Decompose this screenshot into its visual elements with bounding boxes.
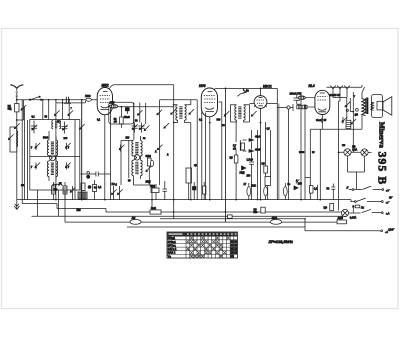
tuning cap CV2 xyxy=(62,122,68,134)
wire x353.3 xyxy=(352,92,354,153)
svg-text:УЗВ: УЗВ xyxy=(297,94,302,96)
svg-text:300: 300 xyxy=(217,120,222,122)
svg-text:ВУТиц: ВУТиц xyxy=(168,244,176,247)
wire antenna down xyxy=(16,100,18,200)
svg-text:у: у xyxy=(68,147,70,149)
svg-text:ПИФ: ПИФ xyxy=(85,95,91,98)
resistor R7 xyxy=(148,158,152,172)
svg-text:0,1: 0,1 xyxy=(32,117,36,119)
svg-text:100пФ: 100пФ xyxy=(290,92,297,95)
node i2 xyxy=(62,102,64,104)
wire link2 xyxy=(17,119,24,121)
wire x305 xyxy=(305,104,310,199)
svg-text:5000: 5000 xyxy=(43,138,49,140)
trimmer b2 xyxy=(65,143,71,150)
svg-text:RL4: RL4 xyxy=(309,84,315,88)
coil connect wires xyxy=(49,131,56,181)
trimmer k11 xyxy=(341,117,347,124)
switch k6 xyxy=(137,110,143,116)
resistor R1 oval xyxy=(85,95,91,101)
transformer core xyxy=(366,98,368,115)
wire V1 bottom xyxy=(104,115,106,200)
svg-text:д: д xyxy=(167,154,169,156)
svg-text:НВС1: НВС1 xyxy=(263,84,272,88)
capacitor c16 dark xyxy=(193,182,196,200)
svg-text:0,07А: 0,07А xyxy=(350,217,357,220)
osc coil leads xyxy=(121,136,141,185)
svg-text:250: 250 xyxy=(254,212,259,214)
iron core coil L4 xyxy=(52,121,61,129)
node if1b xyxy=(173,122,175,124)
svg-text:4МФ: 4МФ xyxy=(272,217,277,220)
svg-text:7: 7 xyxy=(71,108,73,110)
svg-text:50: 50 xyxy=(327,188,330,191)
svg-text:25: 25 xyxy=(312,152,315,154)
wire V2 bottom xyxy=(209,117,211,200)
svg-text:ЦАВ 2: ЦАВ 2 xyxy=(168,252,176,255)
tube V4 xyxy=(315,90,330,114)
antenna xyxy=(10,85,23,100)
svg-text:-А: -А xyxy=(385,230,388,234)
svg-text:0,1: 0,1 xyxy=(98,186,102,189)
coil L10 bottom xyxy=(53,184,63,191)
switch S1 xyxy=(29,96,41,101)
resistor r16 xyxy=(283,183,290,200)
wire plate V1 xyxy=(113,106,175,108)
svg-text:ЦФ: ЦФ xyxy=(324,206,328,209)
output transformer primary xyxy=(362,93,366,130)
IF1 transformer coils xyxy=(174,105,191,123)
wire grid cap V1 xyxy=(110,85,174,89)
svg-text:НВД: НВД xyxy=(240,172,245,175)
speaker magnet and cone xyxy=(377,97,392,116)
svg-text:Пк: Пк xyxy=(361,206,365,209)
resistor nvd xyxy=(150,185,159,193)
box divider xyxy=(30,156,80,158)
trimmer b4 xyxy=(65,163,71,170)
trimmer k10 xyxy=(163,123,169,129)
wire v x27.5 xyxy=(27,120,29,200)
svg-text:+Г: +Г xyxy=(386,201,390,205)
IF2 arrows xyxy=(224,111,257,117)
node a1 xyxy=(16,99,18,101)
resistor AM2 oval xyxy=(270,217,281,224)
switch row1 xyxy=(346,186,393,200)
svg-text:кнд: кнд xyxy=(8,108,12,111)
svg-text:50: 50 xyxy=(45,117,48,119)
wire V3 top xyxy=(260,88,262,95)
tone cap on Y3 xyxy=(228,215,233,218)
resistor r14 xyxy=(244,183,251,200)
resistor Pk xyxy=(352,205,365,213)
resistor R11 xyxy=(309,186,318,194)
wire x225.5 tall xyxy=(225,88,227,222)
connector circle c2 xyxy=(346,109,348,111)
node a2 xyxy=(16,119,18,121)
svg-text:50пФ: 50пФ xyxy=(124,116,130,119)
svg-text:ЦЗ: ЦЗ xyxy=(262,163,266,166)
tuning gang CV3 xyxy=(132,123,138,133)
capacitor C9 xyxy=(290,92,302,104)
resistor R3 xyxy=(81,183,97,191)
band filter box xyxy=(30,120,80,191)
IF1 arrows xyxy=(170,109,194,115)
svg-text:ЦЗ: ЦЗ xyxy=(230,156,234,159)
trimmer k5 xyxy=(144,125,150,131)
trimmer pair small xyxy=(111,183,123,200)
pilot lamp xyxy=(341,209,356,219)
diode D2 xyxy=(294,179,302,189)
svg-text:НЗ д: НЗ д xyxy=(112,183,118,186)
bus Y2 xyxy=(22,204,133,213)
wire V4 bottom xyxy=(321,115,323,130)
capacitor C14 xyxy=(327,184,336,194)
wire x191 x197 xyxy=(160,100,198,200)
capacitor C7 xyxy=(124,107,130,119)
resistor R8 xyxy=(233,143,245,150)
coil L6 inline xyxy=(110,102,118,108)
resistor r13 xyxy=(203,182,206,200)
svg-text:2М: 2М xyxy=(222,125,225,127)
node d2 xyxy=(209,122,211,124)
resistor r15 xyxy=(264,186,268,200)
svg-text:РУВц1: РУВц1 xyxy=(168,241,177,244)
svg-text:Ви: Ви xyxy=(246,91,250,93)
resistor 5m box xyxy=(150,207,161,214)
right mid verticals xyxy=(310,129,338,210)
resistor R5 xyxy=(63,182,67,200)
table row labels xyxy=(168,237,177,258)
node d4 xyxy=(260,122,262,124)
svg-text:АМВ: АМВ xyxy=(337,217,344,220)
svg-text:Gал1Г 4б: Gал1Г 4б xyxy=(316,119,327,122)
table x marks xyxy=(187,237,237,258)
diode D1 xyxy=(240,166,246,175)
svg-text:ИЖ2: ИЖ2 xyxy=(102,83,109,87)
svg-text:0,5: 0,5 xyxy=(267,129,271,131)
resistor R6 xyxy=(114,107,123,128)
resistor AM1 oval xyxy=(130,217,141,224)
wire v x24.5 xyxy=(24,107,26,200)
svg-text:у: у xyxy=(68,167,70,169)
capacitor C12 xyxy=(247,158,255,170)
top forks xyxy=(330,86,350,97)
switch row2 xyxy=(351,198,389,205)
svg-text:8000: 8000 xyxy=(299,152,305,154)
svg-text:40пФ: 40пФ xyxy=(255,136,261,139)
speaker frame xyxy=(372,95,383,118)
resistor R9 xyxy=(230,155,238,163)
bus Y5 xyxy=(65,221,347,223)
switch k2 xyxy=(67,110,73,116)
wire top heater xyxy=(327,86,363,88)
coil L5 hatched xyxy=(78,192,87,199)
tube V2 xyxy=(201,88,217,117)
svg-text:ЦНУ: ЦНУ xyxy=(388,228,394,232)
osc coil pair L7 xyxy=(132,141,142,157)
electrolytic C8 xyxy=(186,168,192,200)
wire V3 bottom xyxy=(260,108,262,199)
switch k9b xyxy=(157,145,163,151)
stage1 verticals xyxy=(38,100,76,222)
wire V3 right xyxy=(267,102,277,104)
capacitor C10 xyxy=(243,136,261,142)
tube V3 xyxy=(254,96,267,109)
svg-text:ЦЗ: ЦЗ xyxy=(254,210,258,212)
trimmer b3 xyxy=(34,163,40,170)
node d5 xyxy=(321,121,323,123)
coil L9 hatched xyxy=(297,94,315,109)
osc coil pair L8 xyxy=(132,160,142,176)
svg-text:САГц 1: САГц 1 xyxy=(168,248,177,251)
svg-text:40пФ: 40пФ xyxy=(255,149,261,152)
capacitor C11 xyxy=(243,149,261,153)
value labels stage3 xyxy=(199,91,270,188)
resistor R12 xyxy=(324,204,334,211)
wire plate V2 top xyxy=(214,88,278,199)
bus Y1 xyxy=(17,199,351,201)
svg-text:у: у xyxy=(31,147,33,149)
electrolytic C13 xyxy=(265,177,271,200)
trimmer T2 xyxy=(14,123,20,129)
V2 side wires xyxy=(202,110,206,200)
trimmer T1 xyxy=(21,100,27,120)
tuning cap CV1 xyxy=(31,121,37,134)
wire x221.8 xyxy=(219,102,222,200)
fork stems xyxy=(333,92,347,150)
cap column wires xyxy=(251,130,253,162)
trimmer k12 xyxy=(350,119,356,125)
svg-text:0,1: 0,1 xyxy=(199,120,203,122)
svg-text:ИВ: ИВ xyxy=(21,185,25,187)
trimmer k7 xyxy=(119,145,125,152)
wire x301 xyxy=(300,95,302,200)
wire second input line xyxy=(56,101,86,103)
trimmer k8 xyxy=(145,166,151,172)
value labels stage1 xyxy=(21,108,73,187)
coil L1 antenna xyxy=(8,127,18,152)
svg-text:бкд1б 4б: бкд1б 4б xyxy=(330,94,341,97)
svg-text:д: д xyxy=(155,151,157,153)
resistor R14 hatched xyxy=(346,120,351,128)
svg-text:НВ: НВ xyxy=(342,145,346,147)
value labels stage4 xyxy=(296,96,356,182)
svg-text:100: 100 xyxy=(126,138,131,140)
wire x159.6 xyxy=(159,100,161,185)
switch row3 xyxy=(349,209,390,215)
svg-text:Тμ: Тμ xyxy=(168,255,172,258)
svg-text:ZF=128,5kHz: ZF=128,5kHz xyxy=(268,239,293,244)
bus Y3 xyxy=(32,215,348,217)
svg-text:ЗУ: ЗУ xyxy=(389,196,393,200)
node t1 xyxy=(352,111,354,113)
headphone jack xyxy=(277,104,293,200)
switch k1 xyxy=(54,110,60,116)
wire v x22 xyxy=(21,100,23,204)
assorted drops xyxy=(156,181,165,200)
dial lamp 2 xyxy=(361,149,368,156)
ground xyxy=(14,200,19,210)
capacitor c15 xyxy=(163,185,168,195)
svg-text:ИВД: ИВД xyxy=(146,181,151,184)
connector circle fB xyxy=(355,108,359,116)
node d3 xyxy=(260,88,262,90)
resistor R7b oval xyxy=(150,160,153,166)
svg-text:5,7: 5,7 xyxy=(233,146,237,148)
bus Y2b xyxy=(133,200,341,212)
table xyxy=(167,232,238,258)
svg-text:у: у xyxy=(31,167,33,169)
wire input line xyxy=(17,99,97,101)
svg-text:НВД: НВД xyxy=(150,185,155,188)
trimmer k3 xyxy=(79,124,85,130)
bus Y6 xyxy=(127,219,376,231)
svg-text:17: 17 xyxy=(244,183,247,186)
tuning gang CV4 xyxy=(139,123,145,133)
svg-text:6,3А: 6,3А xyxy=(352,148,357,151)
svg-text:5о: 5о xyxy=(288,183,291,186)
long wire x173.7 xyxy=(173,85,175,219)
lamp wires xyxy=(339,152,372,189)
bus Y4 xyxy=(160,218,305,220)
svg-text:5мΩ: 5мΩ xyxy=(151,207,156,210)
node n4 xyxy=(121,106,123,108)
trimmer k4 xyxy=(70,186,76,200)
trimmer k13 xyxy=(345,102,351,108)
svg-text:пФ: пФ xyxy=(114,121,117,124)
svg-text:250: 250 xyxy=(247,176,252,178)
svg-text:+У: +У xyxy=(386,188,391,192)
coupling circle xyxy=(50,155,56,161)
node if1a xyxy=(173,104,175,106)
wire fork stems down xyxy=(347,98,351,120)
detector line C5 xyxy=(81,172,111,179)
table dark cells xyxy=(230,240,237,257)
resistor R17 box xyxy=(254,207,266,214)
terminal row4 xyxy=(376,230,388,234)
grid clip xyxy=(237,88,246,96)
capacitor C1 inline xyxy=(64,97,71,104)
svg-text:Minerva: Minerva xyxy=(377,122,385,148)
svg-text:5к: 5к xyxy=(143,138,146,140)
svg-text:+А: +А xyxy=(386,212,390,216)
trimmer b1 xyxy=(34,143,40,150)
svg-text:395 B: 395 B xyxy=(376,152,388,186)
svg-text:Л: Л xyxy=(346,187,349,190)
coil pair L2 xyxy=(47,140,57,156)
svg-text:1МΩ: 1МΩ xyxy=(251,186,256,188)
svg-text:250: 250 xyxy=(298,182,303,185)
capacitor C6 xyxy=(93,180,102,200)
value labels stage2 xyxy=(97,120,198,183)
wire V3 left xyxy=(250,102,255,104)
IF can 1 xyxy=(109,102,134,124)
resistor AMB box xyxy=(337,217,347,224)
V4 row wire xyxy=(310,128,362,130)
svg-text:РУкц1: РУкц1 xyxy=(168,237,176,240)
svg-text:30: 30 xyxy=(135,121,138,123)
switch k9 xyxy=(156,110,162,116)
resistor R10 xyxy=(262,163,268,173)
osc coupling circle xyxy=(134,155,139,160)
switch above transformer xyxy=(362,85,365,93)
svg-text:5м: 5м xyxy=(77,208,82,212)
svg-text:50: 50 xyxy=(128,181,131,183)
mid verticals xyxy=(236,122,270,200)
coil pair L3 xyxy=(47,161,57,177)
wire y111.6 xyxy=(350,111,353,113)
svg-text:НФ3: НФ3 xyxy=(199,84,206,88)
dial lamp 1 xyxy=(344,146,358,156)
IF2 transformer coils xyxy=(231,105,250,122)
stage2 verticals xyxy=(111,103,146,200)
resistor R2 box xyxy=(8,104,19,112)
tube V1 xyxy=(97,88,112,115)
svg-text:200: 200 xyxy=(64,138,69,140)
svg-text:т: т xyxy=(354,96,356,98)
svg-text:фБ: фБ xyxy=(355,114,359,117)
svg-text:1,5пФ: 1,5пФ xyxy=(247,158,254,161)
wire y1 to row2 xyxy=(350,200,353,202)
resistor R4 xyxy=(52,182,56,200)
osc bottom wires xyxy=(134,172,153,200)
transformer secondary xyxy=(371,102,374,110)
svg-text:0,1: 0,1 xyxy=(97,120,101,122)
